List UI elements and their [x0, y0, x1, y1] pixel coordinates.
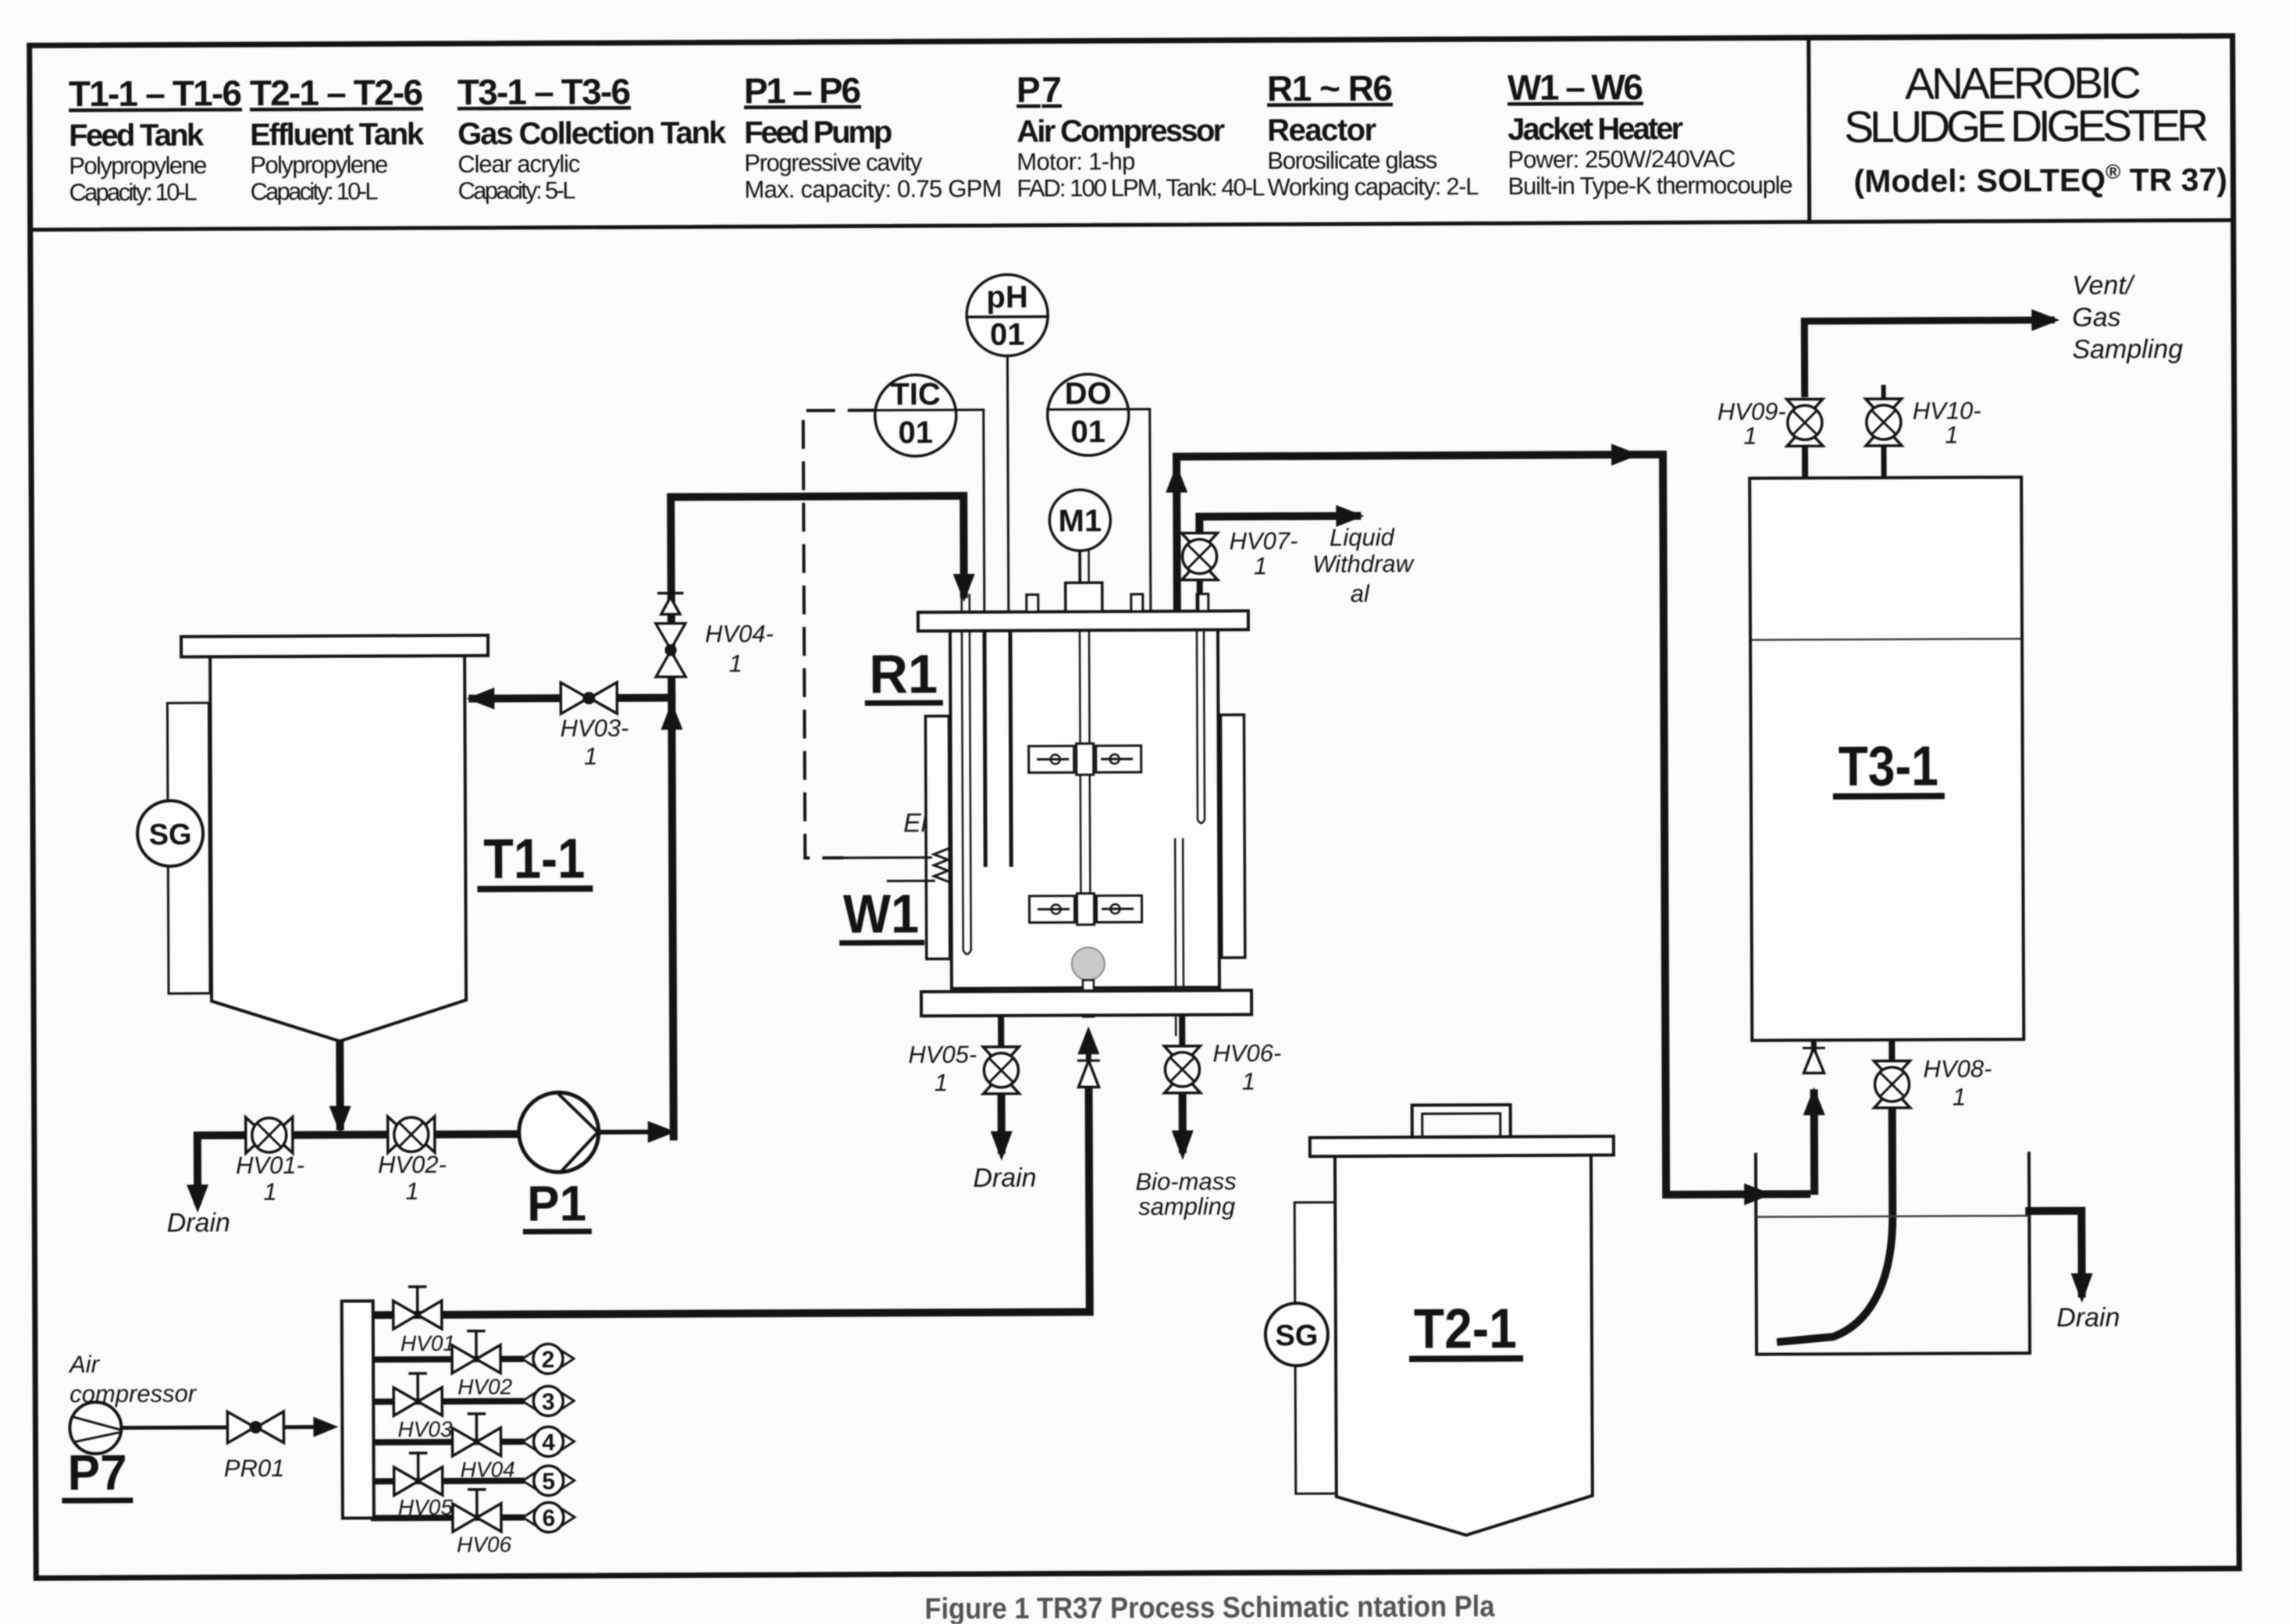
svg-text:Effluent Tank: Effluent Tank — [250, 117, 425, 152]
svg-text:Drain: Drain — [973, 1163, 1036, 1193]
svg-text:1: 1 — [1945, 421, 1958, 448]
svg-text:1: 1 — [1242, 1067, 1255, 1095]
svg-text:Gas: Gas — [2072, 303, 2121, 333]
svg-text:T3-1 – T3-6: T3-1 – T3-6 — [457, 71, 631, 112]
svg-text:4: 4 — [542, 1430, 555, 1455]
svg-text:Bio-mass: Bio-mass — [1135, 1167, 1236, 1195]
svg-text:HV01-: HV01- — [236, 1152, 304, 1179]
svg-text:W1: W1 — [843, 883, 919, 944]
svg-text:T2-1 – T2-6: T2-1 – T2-6 — [250, 72, 423, 113]
svg-text:1: 1 — [1254, 552, 1267, 579]
svg-text:Capacity: 10-L: Capacity: 10-L — [69, 178, 197, 206]
svg-text:Feed Pump: Feed Pump — [744, 115, 892, 150]
svg-text:Progressive cavity: Progressive cavity — [744, 148, 923, 176]
svg-text:1: 1 — [728, 650, 742, 677]
svg-text:Borosilicate glass: Borosilicate glass — [1267, 146, 1437, 174]
svg-text:T1-1 – T1-6: T1-1 – T1-6 — [69, 73, 242, 114]
svg-text:T2-1: T2-1 — [1414, 1298, 1517, 1361]
svg-text:DO: DO — [1065, 376, 1112, 411]
svg-text:R1: R1 — [869, 643, 938, 704]
svg-text:Working capacity: 2-L: Working capacity: 2-L — [1267, 173, 1479, 201]
svg-text:P7: P7 — [1016, 69, 1062, 109]
svg-text:1: 1 — [405, 1177, 418, 1205]
svg-text:5: 5 — [542, 1469, 555, 1494]
svg-text:HV04: HV04 — [461, 1458, 515, 1482]
svg-text:Drain: Drain — [167, 1208, 230, 1238]
svg-text:1: 1 — [1953, 1083, 1966, 1110]
svg-text:Power: 250W/240VAC: Power: 250W/240VAC — [1508, 145, 1735, 173]
svg-text:Polypropylene: Polypropylene — [69, 151, 207, 180]
svg-text:M1: M1 — [1058, 504, 1102, 538]
svg-text:R1 ~ R6: R1 ~ R6 — [1267, 68, 1393, 109]
svg-text:Figure 1 TR37 Process Schimati: Figure 1 TR37 Process Schimatic ntation … — [924, 1590, 1495, 1624]
svg-text:al: al — [1351, 580, 1370, 607]
svg-text:T3-1: T3-1 — [1839, 735, 1938, 799]
svg-text:sampling: sampling — [1138, 1192, 1235, 1220]
svg-text:Capacity: 5-L: Capacity: 5-L — [457, 176, 575, 205]
svg-text:P7: P7 — [68, 1444, 127, 1501]
svg-text:SG: SG — [1275, 1319, 1318, 1352]
svg-text:HV02: HV02 — [457, 1375, 513, 1399]
svg-text:HV06: HV06 — [457, 1533, 512, 1557]
svg-text:1: 1 — [263, 1178, 276, 1206]
svg-text:P1: P1 — [527, 1175, 586, 1231]
svg-text:SLUDGE DIGESTER: SLUDGE DIGESTER — [1844, 101, 2209, 152]
svg-text:Withdraw: Withdraw — [1312, 550, 1415, 578]
svg-text:HV10-: HV10- — [1913, 397, 1981, 424]
svg-text:Max. capacity: 0.75 GPM: Max. capacity: 0.75 GPM — [744, 175, 1002, 203]
svg-text:HV02-: HV02- — [378, 1151, 447, 1178]
svg-text:El: El — [903, 808, 928, 838]
svg-text:compressor: compressor — [69, 1380, 198, 1408]
svg-text:Liquid: Liquid — [1330, 524, 1396, 551]
svg-text:01: 01 — [1071, 415, 1106, 449]
svg-text:HV09-: HV09- — [1718, 397, 1786, 425]
svg-text:HV07-: HV07- — [1229, 527, 1298, 554]
svg-text:HV06-: HV06- — [1212, 1039, 1281, 1067]
svg-text:HV03-: HV03- — [561, 714, 629, 742]
svg-text:Clear acrylic: Clear acrylic — [457, 150, 580, 178]
svg-text:HV03: HV03 — [397, 1417, 453, 1441]
svg-text:Reactor: Reactor — [1267, 113, 1376, 148]
svg-text:Drain: Drain — [2056, 1303, 2120, 1333]
svg-text:HV04-: HV04- — [705, 620, 774, 647]
svg-text:pH: pH — [986, 280, 1028, 315]
svg-text:(Model: SOLTEQ® TR 37): (Model: SOLTEQ® TR 37) — [1853, 159, 2227, 199]
svg-text:1: 1 — [1743, 422, 1757, 450]
svg-text:Gas Collection Tank: Gas Collection Tank — [457, 116, 727, 151]
svg-text:1: 1 — [934, 1069, 948, 1096]
svg-text:Jacket Heater: Jacket Heater — [1508, 112, 1683, 147]
svg-text:2: 2 — [542, 1347, 555, 1373]
svg-text:HV05: HV05 — [398, 1495, 454, 1519]
svg-text:FAD: 100 LPM, Tank: 40-L: FAD: 100 LPM, Tank: 40-L — [1016, 173, 1265, 201]
svg-text:SG: SG — [149, 818, 192, 851]
svg-text:P1 – P6: P1 – P6 — [744, 70, 861, 112]
svg-text:HV05-: HV05- — [908, 1041, 977, 1068]
svg-text:01: 01 — [899, 415, 934, 450]
svg-text:PR01: PR01 — [224, 1455, 285, 1482]
svg-text:HV01: HV01 — [400, 1331, 455, 1355]
svg-text:Built-in Type-K thermocouple: Built-in Type-K thermocouple — [1508, 171, 1792, 200]
svg-text:Air Compressor: Air Compressor — [1016, 114, 1225, 149]
svg-text:Motor: 1-hp: Motor: 1-hp — [1016, 148, 1135, 176]
svg-text:TIC: TIC — [890, 377, 941, 411]
svg-text:T1-1: T1-1 — [483, 828, 585, 891]
svg-text:Capacity: 10-L: Capacity: 10-L — [250, 177, 378, 205]
svg-text:01: 01 — [990, 318, 1025, 352]
svg-text:Vent/: Vent/ — [2072, 270, 2136, 300]
svg-text:3: 3 — [542, 1389, 555, 1415]
svg-text:Feed Tank: Feed Tank — [69, 118, 205, 153]
svg-text:Sampling: Sampling — [2072, 334, 2183, 365]
svg-text:1: 1 — [584, 743, 597, 770]
svg-text:W1 – W6: W1 – W6 — [1508, 66, 1643, 108]
svg-text:6: 6 — [543, 1505, 556, 1531]
svg-text:Air: Air — [68, 1351, 101, 1378]
svg-text:HV08-: HV08- — [1923, 1055, 1992, 1082]
svg-text:Polypropylene: Polypropylene — [250, 151, 388, 179]
